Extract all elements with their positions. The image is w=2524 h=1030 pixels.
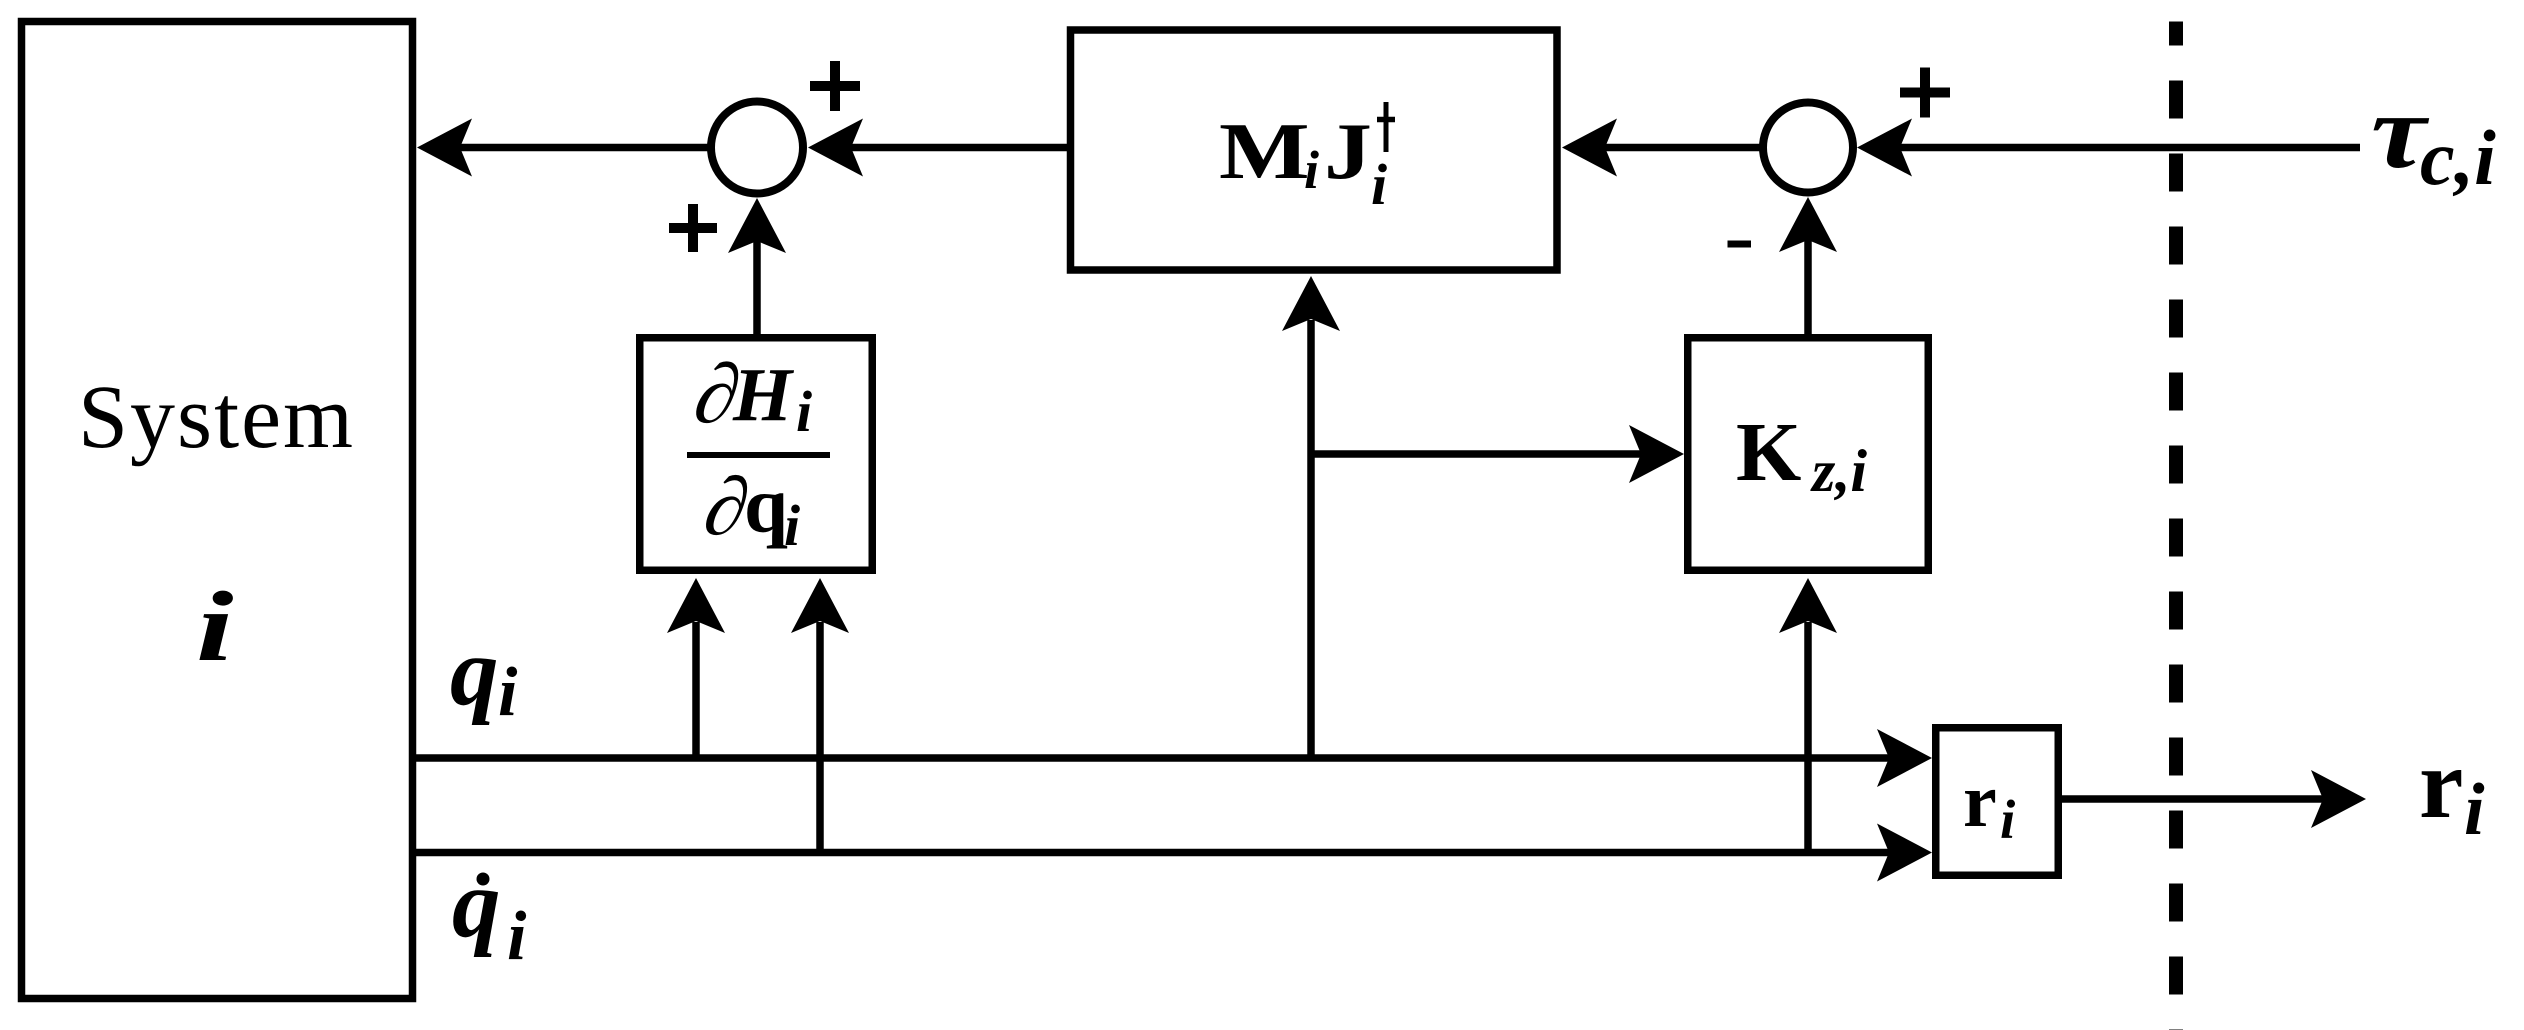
- arrowhead into Kz bottom: [1779, 578, 1837, 633]
- arrowhead into System block: [417, 119, 472, 177]
- svg-text:i: i: [2000, 789, 2016, 850]
- minus sign below-left of S2: [1728, 241, 1752, 248]
- wire branch to Kz left: [1311, 450, 1642, 458]
- block dH (partial H_i / partial q_i): [640, 338, 873, 571]
- svg-text:J: J: [1324, 107, 1372, 196]
- label tau_c,i: [2371, 72, 2496, 201]
- arrowhead into S2 bottom: [1779, 197, 1837, 252]
- svg-text:r: r: [1963, 759, 1997, 843]
- wire q_i bus up to MJ bottom: [1307, 320, 1315, 758]
- plus sign below-left of S1: [669, 204, 717, 252]
- svg-text:System: System: [78, 368, 355, 467]
- svg-text:c,i: c,i: [2420, 114, 2496, 201]
- label dH_i / dq_i: [687, 348, 830, 558]
- wire S2 to MJ: [1604, 144, 1764, 152]
- summing junction S1 (left): [711, 102, 803, 194]
- svg-text:i: i: [1304, 140, 1319, 200]
- label K_z,i: [1736, 406, 1867, 504]
- svg-text:q: q: [450, 618, 499, 725]
- dashed boundary line: [2169, 22, 2183, 1030]
- svg-text:i: i: [784, 493, 800, 558]
- svg-text:H: H: [732, 353, 795, 437]
- wire qdot bus up to dH (right input): [816, 622, 824, 853]
- svg-text:i: i: [1371, 152, 1387, 217]
- block Kz (K_z,i): [1688, 338, 1929, 571]
- svg-text:i: i: [2464, 769, 2485, 851]
- arrowhead into MJ right side: [1562, 119, 1617, 177]
- svg-text:q: q: [452, 850, 501, 957]
- label M_i J_i dagger: [1219, 102, 1395, 217]
- wire q_i bus up to dH (left input): [692, 622, 700, 758]
- label r_i in block: [1963, 759, 2016, 850]
- plus sign above-right of S2: [1900, 68, 1950, 118]
- svg-text:q: q: [744, 463, 788, 550]
- wire qdot bus up to Kz bottom: [1804, 622, 1812, 853]
- arrowhead into MJ bottom: [1282, 276, 1340, 331]
- arrowhead into S1 right: [808, 119, 863, 177]
- wire dH to S1 bottom: [753, 240, 761, 336]
- plus sign above-right of S1: [810, 61, 860, 111]
- wire bus qdot_i: [412, 849, 1895, 857]
- label i: [196, 571, 234, 682]
- summing junction S2 (right): [1763, 103, 1853, 193]
- arrowhead qdot_i into r block: [1877, 824, 1932, 882]
- wire bus q_i: [412, 754, 1895, 762]
- svg-text:K: K: [1736, 406, 1801, 499]
- svg-text:i: i: [507, 898, 527, 975]
- block MJ (M_i J_i dagger): [1071, 30, 1558, 270]
- block r (r_i): [1936, 728, 2059, 876]
- arrowhead into S1 bottom: [728, 198, 786, 253]
- label r_i output: [2419, 728, 2485, 851]
- wire r output: [2062, 795, 2325, 803]
- svg-text:r: r: [2419, 728, 2463, 839]
- wire MJ to S1: [850, 144, 1067, 152]
- svg-text:i: i: [498, 654, 518, 731]
- arrowhead into S2 right: [1857, 119, 1912, 177]
- arrowhead into Kz left: [1629, 425, 1684, 483]
- svg-text:i: i: [796, 379, 812, 444]
- system block (System i): [22, 22, 413, 999]
- wire Kz to S2 bottom: [1804, 239, 1812, 336]
- svg-text:M: M: [1219, 107, 1310, 196]
- wire S1 to System block: [455, 144, 711, 152]
- wire tau to S2: [1899, 144, 2360, 152]
- arrowhead q_i into r block: [1877, 729, 1932, 787]
- svg-text:i: i: [196, 571, 234, 682]
- arrowhead into dH bottom left: [667, 578, 725, 633]
- arrowhead r output: [2311, 770, 2366, 828]
- label q_i: [450, 618, 518, 731]
- label qdot_i: [452, 850, 527, 975]
- arrowhead into dH bottom right: [791, 578, 849, 633]
- svg-text:z,i: z,i: [1810, 438, 1867, 504]
